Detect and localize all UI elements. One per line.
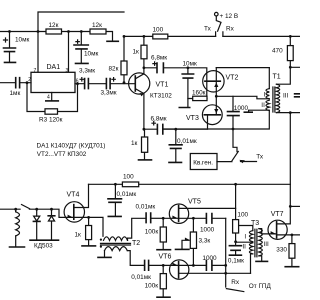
- svg-text:КТ3102: КТ3102: [150, 93, 172, 100]
- svg-text:Т1: Т1: [273, 74, 281, 81]
- svg-text:0,1мк: 0,1мк: [228, 257, 244, 264]
- svg-text:82к: 82к: [109, 65, 119, 72]
- svg-text:3: 3: [66, 68, 69, 74]
- svg-text:6,8мк: 6,8мк: [151, 116, 167, 123]
- svg-text:I: I: [264, 92, 266, 99]
- svg-text:VT4: VT4: [67, 191, 80, 198]
- svg-text:100к: 100к: [145, 282, 159, 289]
- svg-text:1000: 1000: [200, 227, 215, 234]
- svg-text:4: 4: [47, 95, 50, 101]
- svg-text:10мк: 10мк: [15, 37, 30, 44]
- svg-text:7: 7: [34, 68, 37, 74]
- svg-text:Тх: Тх: [256, 154, 264, 161]
- svg-text:III: III: [283, 93, 289, 100]
- svg-text:2: 2: [28, 77, 31, 83]
- svg-text:1к: 1к: [133, 48, 140, 55]
- svg-text:470: 470: [272, 48, 283, 55]
- svg-text:VT2...VT7 КП302: VT2...VT7 КП302: [37, 151, 87, 158]
- svg-text:1к: 1к: [131, 140, 138, 147]
- svg-text:10мк: 10мк: [183, 60, 198, 67]
- svg-text:12к: 12к: [49, 22, 59, 29]
- svg-text:КД503: КД503: [34, 242, 53, 249]
- svg-text:0,01мк: 0,01мк: [131, 274, 151, 281]
- svg-text:6: 6: [76, 79, 79, 85]
- svg-text:VT6: VT6: [159, 254, 172, 261]
- svg-text:1мк: 1мк: [10, 90, 21, 97]
- svg-text:330: 330: [276, 247, 287, 254]
- svg-text:160к: 160к: [192, 90, 206, 97]
- svg-text:DA1 К140УД7 (КУД701): DA1 К140УД7 (КУД701): [37, 142, 106, 149]
- svg-text:1к: 1к: [75, 231, 82, 238]
- svg-text:II: II: [261, 102, 265, 109]
- svg-text:VT3: VT3: [186, 115, 199, 122]
- svg-text:3,3мк: 3,3мк: [79, 68, 95, 75]
- svg-text:+ 12 В: + 12 В: [220, 13, 239, 20]
- svg-text:От ГПД: От ГПД: [249, 283, 272, 290]
- svg-text:Rх: Rх: [226, 26, 235, 33]
- svg-text:I: I: [244, 234, 246, 241]
- svg-text:0,01мк: 0,01мк: [117, 191, 137, 198]
- svg-text:100: 100: [237, 211, 248, 218]
- svg-text:6,8мк: 6,8мк: [151, 55, 167, 62]
- svg-text:100к: 100к: [145, 229, 159, 236]
- svg-text:VT7: VT7: [271, 211, 284, 218]
- svg-text:1000: 1000: [202, 255, 217, 262]
- svg-text:VT1: VT1: [156, 82, 169, 89]
- svg-text:3,3мк: 3,3мк: [101, 89, 117, 96]
- svg-text:1000: 1000: [234, 105, 249, 112]
- svg-text:DA1: DA1: [47, 64, 61, 71]
- svg-text:Кв.ген.: Кв.ген.: [193, 160, 213, 167]
- svg-text:VT5: VT5: [188, 199, 201, 206]
- svg-text:0,01мк: 0,01мк: [177, 138, 197, 145]
- svg-text:10мк: 10мк: [84, 50, 99, 57]
- svg-text:Т2: Т2: [132, 240, 140, 247]
- svg-text:100: 100: [153, 27, 164, 34]
- svg-text:0,01мк: 0,01мк: [136, 203, 156, 210]
- svg-text:Т3: Т3: [251, 220, 259, 227]
- svg-text:Rх: Rх: [231, 279, 240, 286]
- svg-text:12к: 12к: [92, 22, 102, 29]
- svg-text:II: II: [242, 244, 246, 251]
- svg-text:3,3к: 3,3к: [199, 237, 211, 244]
- svg-text:VT2: VT2: [226, 75, 239, 82]
- svg-text:III: III: [264, 241, 270, 248]
- svg-text:Тх: Тх: [204, 26, 212, 33]
- svg-text:R3 120к: R3 120к: [39, 117, 63, 124]
- svg-text:100: 100: [123, 174, 134, 181]
